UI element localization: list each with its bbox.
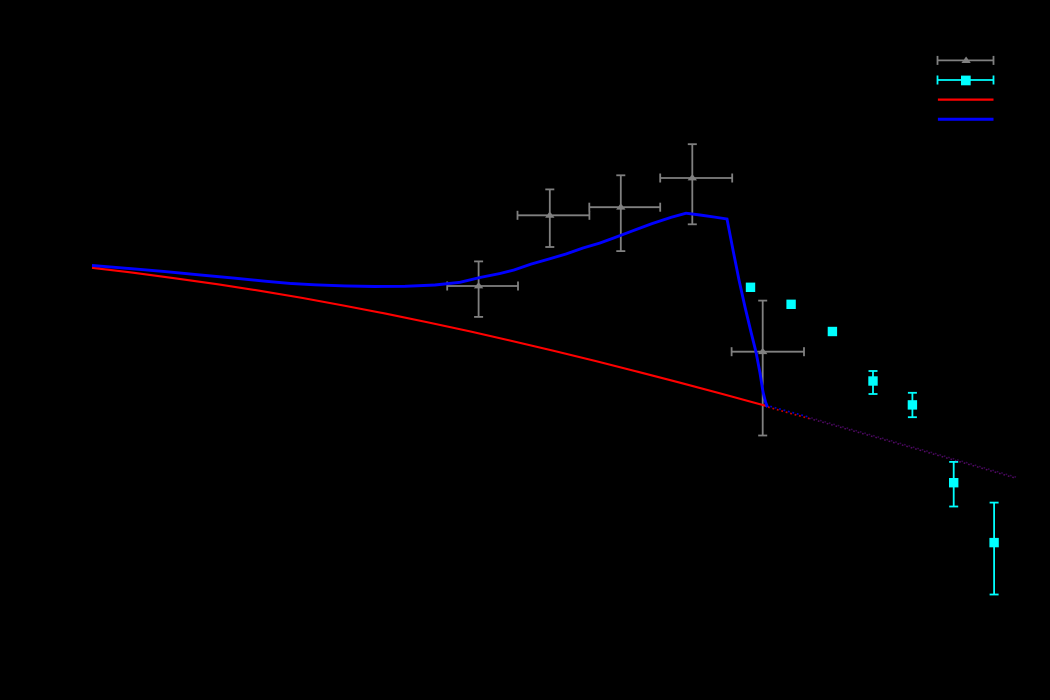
cyan data point C7 with y error bar and square marker [989, 503, 998, 595]
blue dotted extrapolation tail (far, dim) [809, 417, 1016, 477]
legend entry 4: blue line sample [938, 118, 994, 121]
legend entry 3: red line sample [938, 98, 994, 100]
cyan data point C5 with y error bar and square marker [908, 393, 917, 417]
blue model curve (solid, bump with sharp cutoff) [92, 213, 768, 407]
blue dotted extrapolation tail (near, brighter) [768, 406, 809, 417]
red model curve (solid power law) [92, 268, 767, 406]
red dotted extrapolation tail (far, dim) [809, 418, 1016, 478]
cyan data point C4 with y error bar and square marker [868, 371, 877, 394]
gray data point T3 with x/y error bars and triangle marker [589, 175, 660, 251]
cyan data point C6 with y error bar and square marker [949, 462, 958, 507]
red dotted extrapolation tail (near, brighter) [768, 407, 809, 418]
gray data point T2 with x/y error bars and triangle marker [518, 189, 590, 247]
cyan data point C2 square marker [786, 300, 795, 309]
cyan data point C3 square marker [828, 327, 837, 336]
legend entry 2: cyan errorbar sample with square marker [938, 76, 994, 86]
legend entry 1: gray errorbar sample with triangle marker [938, 56, 994, 65]
cyan data point C1 square marker [746, 283, 755, 292]
gray data point T4 with x/y error bars and triangle marker [660, 144, 732, 224]
gray data point T5 with x/y error bars and triangle marker [732, 301, 804, 436]
gray data point T1 with x/y error bars and triangle marker [447, 261, 518, 317]
